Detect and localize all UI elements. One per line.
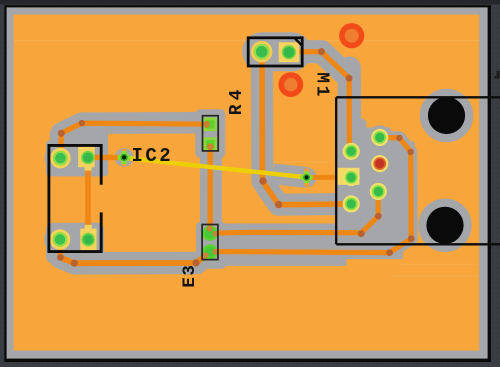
svg-text:E3: E3 xyxy=(180,264,200,288)
svg-text:IC2: IC2 xyxy=(132,145,174,167)
svg-text:M1: M1 xyxy=(312,72,332,99)
svg-text:R4: R4 xyxy=(227,86,247,116)
